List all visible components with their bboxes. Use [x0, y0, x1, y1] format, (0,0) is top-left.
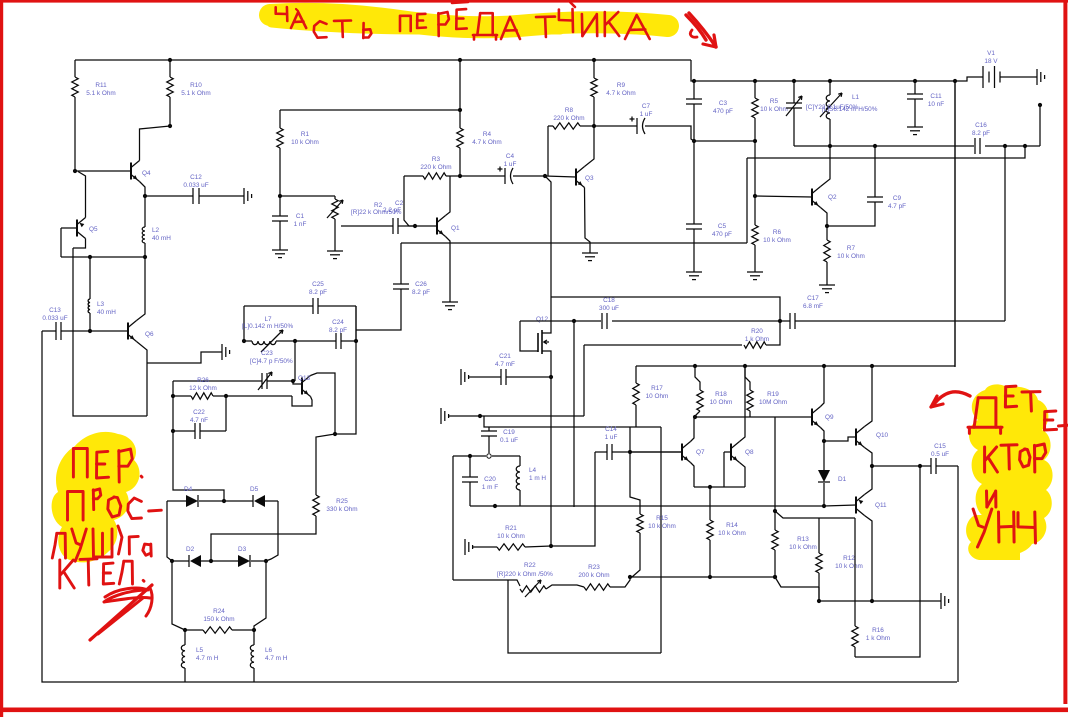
- svg-text:1 m F: 1 m F: [482, 484, 498, 491]
- svg-text:10 k Ohm: 10 k Ohm: [760, 106, 788, 113]
- svg-text:R11: R11: [95, 82, 107, 89]
- svg-text:220 k Ohm: 220 k Ohm: [420, 164, 451, 171]
- svg-text:6.8 mF: 6.8 mF: [803, 303, 823, 310]
- svg-text:R14: R14: [726, 522, 738, 529]
- svg-text:R22: R22: [524, 562, 536, 569]
- svg-text:C9: C9: [893, 195, 902, 202]
- svg-text:C18: C18: [603, 297, 615, 304]
- svg-text:R4: R4: [483, 131, 492, 138]
- svg-text:40 mH: 40 mH: [152, 235, 171, 242]
- svg-text:Q5: Q5: [89, 226, 98, 233]
- svg-text:R24: R24: [213, 608, 225, 615]
- svg-text:C26: C26: [415, 281, 427, 288]
- svg-text:C15: C15: [934, 443, 946, 450]
- svg-text:4.7 pF: 4.7 pF: [888, 203, 906, 210]
- svg-text:R10: R10: [190, 82, 202, 89]
- svg-text:10 Ohm: 10 Ohm: [646, 393, 669, 400]
- svg-text:10 k Ohm: 10 k Ohm: [497, 533, 525, 540]
- svg-text:Q13: Q13: [298, 375, 311, 382]
- svg-text:C21: C21: [499, 353, 511, 360]
- svg-text:L1: L1: [852, 94, 860, 101]
- svg-text:0.1 uF: 0.1 uF: [500, 437, 518, 444]
- svg-text:1 m H: 1 m H: [529, 475, 546, 482]
- svg-text:L4: L4: [529, 467, 537, 474]
- svg-text:0.033 uF: 0.033 uF: [42, 315, 67, 322]
- svg-text:10 k Ohm: 10 k Ohm: [837, 253, 865, 260]
- svg-text:0.033 uF: 0.033 uF: [183, 182, 208, 189]
- svg-text:R2: R2: [374, 202, 383, 209]
- svg-text:C4: C4: [506, 153, 515, 160]
- svg-text:10 k Ohm: 10 k Ohm: [789, 544, 817, 551]
- svg-text:C16: C16: [975, 122, 987, 129]
- svg-text:R13: R13: [797, 536, 809, 543]
- svg-text:4.7 k Ohm: 4.7 k Ohm: [472, 139, 501, 146]
- svg-text:300 uF: 300 uF: [599, 305, 619, 312]
- svg-text:R23: R23: [588, 564, 600, 571]
- svg-text:10 Ohm: 10 Ohm: [710, 399, 733, 406]
- svg-text:8.2 pF: 8.2 pF: [412, 289, 430, 296]
- svg-text:C3: C3: [719, 100, 728, 107]
- svg-text:V1: V1: [987, 50, 995, 57]
- svg-text:Q11: Q11: [875, 502, 887, 509]
- svg-text:R25: R25: [336, 498, 348, 505]
- svg-text:R9: R9: [617, 82, 626, 89]
- svg-text:5.1 k Ohm: 5.1 k Ohm: [86, 90, 115, 97]
- svg-text:150 k Ohm: 150 k Ohm: [203, 616, 234, 623]
- svg-text:C1: C1: [296, 213, 305, 220]
- svg-text:470 pF: 470 pF: [712, 231, 732, 238]
- svg-text:1 uF: 1 uF: [640, 111, 653, 118]
- svg-text:R7: R7: [847, 245, 856, 252]
- svg-text:Q4: Q4: [142, 170, 151, 177]
- svg-text:4.7 m H: 4.7 m H: [265, 655, 288, 662]
- svg-text:18 V: 18 V: [984, 58, 998, 65]
- svg-text:C14: C14: [605, 426, 617, 433]
- svg-text:10 k Ohm: 10 k Ohm: [648, 523, 676, 530]
- svg-text:Q7: Q7: [696, 449, 705, 456]
- svg-text:4.7 nF: 4.7 nF: [190, 417, 208, 424]
- svg-text:10 nF: 10 nF: [928, 101, 944, 108]
- svg-text:C25: C25: [312, 281, 324, 288]
- svg-text:R6: R6: [773, 229, 782, 236]
- svg-text:R17: R17: [651, 385, 663, 392]
- svg-text:Q3: Q3: [585, 175, 594, 182]
- svg-text:R16: R16: [872, 627, 884, 634]
- svg-text:L6: L6: [265, 647, 273, 654]
- svg-text:R5: R5: [770, 98, 779, 105]
- svg-text:[R]220 k Ohm /50%: [R]220 k Ohm /50%: [497, 571, 553, 578]
- svg-text:Q2: Q2: [828, 194, 837, 201]
- svg-text:C22: C22: [193, 409, 205, 416]
- svg-text:470 pF: 470 pF: [713, 108, 733, 115]
- svg-text:8.2 pF: 8.2 pF: [309, 289, 327, 296]
- svg-text:4.7 k Ohm: 4.7 k Ohm: [606, 90, 635, 97]
- svg-text:Q12: Q12: [536, 316, 549, 323]
- svg-text:C7: C7: [642, 103, 651, 110]
- svg-text:D5: D5: [250, 486, 259, 493]
- svg-text:4.7 m H: 4.7 m H: [196, 655, 219, 662]
- svg-text:D2: D2: [186, 546, 195, 553]
- svg-text:R20: R20: [751, 328, 763, 335]
- svg-text:4.7 mF: 4.7 mF: [495, 361, 515, 368]
- svg-text:C24: C24: [332, 319, 344, 326]
- svg-text:R1: R1: [301, 131, 310, 138]
- svg-text:R12: R12: [843, 555, 855, 562]
- svg-text:C13: C13: [49, 307, 61, 314]
- svg-text:C12: C12: [190, 174, 202, 181]
- svg-text:C23: C23: [261, 350, 273, 357]
- svg-text:1 k Ohm: 1 k Ohm: [866, 635, 890, 642]
- svg-text:C2: C2: [395, 200, 404, 207]
- svg-text:D3: D3: [238, 546, 247, 553]
- svg-text:8.2 pF: 8.2 pF: [972, 130, 990, 137]
- svg-text:L5: L5: [196, 647, 204, 654]
- svg-text:1 uF: 1 uF: [504, 161, 517, 168]
- svg-text:R26: R26: [197, 377, 209, 384]
- svg-text:C17: C17: [807, 295, 819, 302]
- svg-text:[C]4.7 p F/50%: [C]4.7 p F/50%: [250, 358, 293, 365]
- svg-text:Q1: Q1: [451, 225, 460, 232]
- svg-text:Q8: Q8: [745, 449, 754, 456]
- svg-text:R18: R18: [715, 391, 727, 398]
- svg-text:330 k Ohm: 330 k Ohm: [326, 506, 357, 513]
- svg-text:8.2 pF: 8.2 pF: [329, 327, 347, 334]
- svg-text:10 k Ohm: 10 k Ohm: [718, 530, 746, 537]
- svg-text:L7: L7: [264, 316, 272, 323]
- svg-text:R19: R19: [767, 391, 779, 398]
- svg-text:10 k Ohm: 10 k Ohm: [763, 237, 791, 244]
- svg-text:R15: R15: [656, 515, 668, 522]
- svg-text:200 k Ohm: 200 k Ohm: [578, 572, 609, 579]
- svg-text:[L]S6.142 m H/50%: [L]S6.142 m H/50%: [822, 106, 878, 113]
- svg-text:D1: D1: [838, 476, 847, 483]
- svg-text:220 k Ohm: 220 k Ohm: [553, 115, 584, 122]
- svg-text:10M Ohm: 10M Ohm: [759, 399, 787, 406]
- svg-text:Q10: Q10: [876, 432, 889, 439]
- svg-text:2.2 pF: 2.2 pF: [383, 207, 401, 214]
- svg-text:1 uF: 1 uF: [605, 434, 618, 441]
- svg-text:10 k Ohm: 10 k Ohm: [291, 139, 319, 146]
- svg-text:0.5 uF: 0.5 uF: [931, 451, 949, 458]
- svg-text:C5: C5: [718, 223, 727, 230]
- svg-text:L2: L2: [152, 227, 160, 234]
- svg-text:[L]0.142 m H/50%: [L]0.142 m H/50%: [242, 323, 293, 330]
- svg-text:R21: R21: [505, 525, 517, 532]
- svg-text:5.1 k Ohm: 5.1 k Ohm: [181, 90, 210, 97]
- svg-text:1 nF: 1 nF: [294, 221, 307, 228]
- svg-text:C20: C20: [484, 476, 496, 483]
- svg-text:12 k Ohm: 12 k Ohm: [189, 385, 217, 392]
- svg-text:C19: C19: [503, 429, 515, 436]
- svg-text:R3: R3: [432, 156, 441, 163]
- svg-text:L3: L3: [97, 301, 105, 308]
- svg-text:C11: C11: [930, 93, 942, 100]
- svg-text:R8: R8: [565, 107, 574, 114]
- svg-text:40 mH: 40 mH: [97, 309, 116, 316]
- svg-text:Q9: Q9: [825, 414, 834, 421]
- svg-text:10 k Ohm: 10 k Ohm: [835, 563, 863, 570]
- svg-text:1 k Ohm: 1 k Ohm: [745, 336, 769, 343]
- svg-text:D4: D4: [184, 486, 193, 493]
- svg-text:Q6: Q6: [145, 331, 154, 338]
